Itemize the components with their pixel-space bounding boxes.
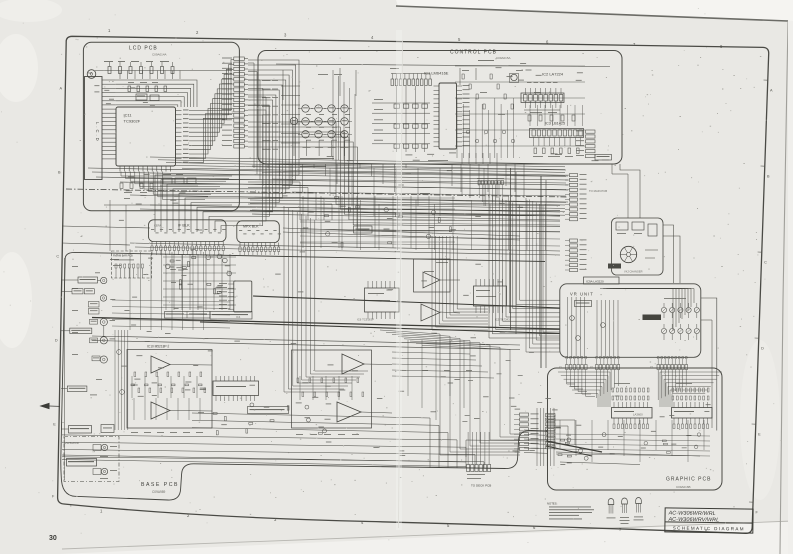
svg-text:IC10 M5218P-2: IC10 M5218P-2 xyxy=(147,345,170,349)
VR connector row J2 xyxy=(590,356,620,369)
key switch matrix wires xyxy=(372,86,430,152)
LCD display DS1 xyxy=(85,77,103,180)
left margin light patches xyxy=(0,34,38,102)
op-amp IC10 M5218P left channel xyxy=(127,345,212,429)
paper right edge xyxy=(780,21,788,554)
volume pot cluster left xyxy=(115,330,128,430)
mode switch labels xyxy=(165,312,253,320)
graphic left label column xyxy=(546,414,556,451)
VR slider group 2 xyxy=(597,300,618,357)
IC11 bottom fanout wires xyxy=(104,172,232,252)
VR connector row J1 xyxy=(559,356,587,369)
amp internal stubs left xyxy=(131,372,206,433)
wires changer to VR xyxy=(612,164,717,431)
vertical wire bundle center xyxy=(489,194,560,338)
SPEAKER terminals xyxy=(64,437,119,482)
connector CN1 LCD to base xyxy=(222,57,248,148)
svg-text:LA3600: LA3600 xyxy=(633,413,643,417)
center vertical bundle extra xyxy=(526,198,560,352)
IC4 detector xyxy=(219,281,252,319)
control top rail xyxy=(276,64,610,67)
IC11 bottom pins xyxy=(119,166,121,172)
DC OUT terminal xyxy=(61,425,114,434)
VR slider group 1 xyxy=(568,297,585,357)
left margin centering arrow xyxy=(41,403,49,408)
heavy bus wires xyxy=(92,168,560,368)
svg-text:IC1 LM6416E: IC1 LM6416E xyxy=(424,71,449,76)
BAL VOL label xyxy=(575,301,592,307)
svg-text:VXJ CHANGER: VXJ CHANGER xyxy=(624,270,643,274)
control right connector xyxy=(576,130,612,160)
IC5 TA7343P xyxy=(474,279,511,322)
graphic EQ IC LA3600 left xyxy=(612,402,653,429)
VR pot rows group 3 xyxy=(661,298,699,340)
svg-text:IF BLK: IF BLK xyxy=(178,224,190,228)
svg-text:BASE PCB: BASE PCB xyxy=(141,482,179,488)
graphic RC rows xyxy=(612,383,709,400)
resistor array control left xyxy=(391,74,431,86)
wire bundle CN1 to center right xyxy=(248,122,560,232)
control bottom drop wires xyxy=(268,164,524,198)
tuning motor block xyxy=(608,218,663,275)
svg-text:IC4: IC4 xyxy=(236,315,241,319)
legend transistor drawings xyxy=(607,498,644,524)
IC9 LA3220 label xyxy=(584,277,620,284)
VR nest wires xyxy=(600,289,694,332)
svg-text:C09A015A: C09A015A xyxy=(496,56,511,60)
amp internal stubs right xyxy=(296,378,364,435)
wire label box xyxy=(354,226,373,233)
IC12 DIP centre xyxy=(213,376,289,414)
CONTROL PCB board outline xyxy=(258,51,622,165)
scanner background top right xyxy=(396,0,793,21)
tact switch cluster xyxy=(290,105,352,159)
bus wires across sheet xyxy=(66,168,568,202)
center mesh wires xyxy=(300,196,560,250)
bus wires lower mid xyxy=(62,210,560,255)
svg-text:MPX BLK: MPX BLK xyxy=(243,225,259,229)
MPX BLK module xyxy=(237,221,281,255)
center lower wires extra xyxy=(392,340,494,420)
IC11 right pins xyxy=(176,110,182,112)
control left pin labels xyxy=(262,80,300,150)
svg-text:TC9302F: TC9302F xyxy=(124,119,141,124)
graphic interior extra wires xyxy=(556,420,710,462)
VR UNIT outline xyxy=(560,284,701,358)
GRAPHIC PCB outline xyxy=(548,368,723,490)
graphic nest wires xyxy=(558,372,722,407)
svg-text:IC9A LA3220: IC9A LA3220 xyxy=(586,280,604,284)
svg-text:NOTES:: NOTES: xyxy=(547,502,558,506)
notes text block xyxy=(547,502,594,520)
AM FM tuner component cluster xyxy=(163,254,236,310)
heavy bus second xyxy=(253,296,560,308)
connector column to main PCB lower xyxy=(565,239,587,272)
wires into graphic from left xyxy=(466,430,548,457)
vertical bundle left of centre xyxy=(284,206,368,392)
vertical bundle mid-left elbows xyxy=(432,236,488,330)
svg-text:SCHEMATIC DIAGRAM: SCHEMATIC DIAGRAM xyxy=(673,525,745,531)
wire bundle LCD upper elbows xyxy=(116,80,197,107)
svg-text:E: E xyxy=(53,423,56,427)
lower bus wires xyxy=(62,413,484,468)
IC3 LB1425 xyxy=(530,122,584,157)
LCD pin comb xyxy=(102,79,116,81)
bus wires upper mid extra xyxy=(140,157,565,216)
svg-text:CERA: CERA xyxy=(154,224,161,228)
control misc wires xyxy=(283,68,497,167)
scatter labels mid sheet xyxy=(122,251,711,465)
svg-text:IC3 LB1425: IC3 LB1425 xyxy=(545,122,565,126)
left column verticals xyxy=(65,258,79,480)
control right densify xyxy=(455,66,585,146)
IF BLK module xyxy=(149,220,227,255)
LCD controller IC11 TC9302F xyxy=(116,107,176,166)
IC11 top components R C cluster xyxy=(87,61,232,79)
antenna and input jacks column xyxy=(61,259,121,314)
connector bundle bottom right of centre xyxy=(514,408,554,466)
power amp IC13 right channel xyxy=(292,350,393,428)
LCD block extra labels xyxy=(94,85,215,204)
staircase bus to lower right xyxy=(380,330,520,455)
svg-text:CONTROL PCB: CONTROL PCB xyxy=(450,50,497,56)
BASE PCB board outline xyxy=(61,252,545,500)
svg-text:TO DECK PCB: TO DECK PCB xyxy=(471,484,491,488)
graphic lower parts xyxy=(556,433,701,465)
wire bundle IC11 to CN1 xyxy=(189,60,234,163)
photocopy smudge rows xyxy=(95,170,561,427)
TO DECK PCB connector xyxy=(467,432,492,488)
svg-text:IC2 LA7224: IC2 LA7224 xyxy=(542,72,564,77)
svg-text:D: D xyxy=(55,339,58,343)
svg-text:C09A014A: C09A014A xyxy=(152,53,167,57)
CD AUX jacks xyxy=(61,318,115,344)
paper top edge xyxy=(396,6,788,21)
svg-text:IC6 TC9163P: IC6 TC9163P xyxy=(357,318,374,322)
extra buses under control xyxy=(252,166,566,216)
IC6 TC9163 xyxy=(357,281,399,322)
LCD block mid components xyxy=(128,82,167,101)
svg-text:C09A016B: C09A016B xyxy=(676,485,691,489)
IC1 LM6416E xyxy=(424,71,470,150)
PHONO jacks xyxy=(61,356,107,395)
graphic EQ IC LA3600 right xyxy=(672,402,713,429)
svg-text:L.C.D: L.C.D xyxy=(95,122,100,143)
svg-text:C: C xyxy=(764,261,767,265)
graphic connector fanout wires xyxy=(567,370,687,401)
scanner background bottom xyxy=(60,521,793,554)
svg-text:C: C xyxy=(56,255,59,259)
op-amp IC8 block xyxy=(414,259,461,321)
svg-text:VR UNIT: VR UNIT xyxy=(570,292,594,297)
wire bundle CN1 cascade to IF MPX xyxy=(155,60,299,232)
amp section RC parts xyxy=(213,403,326,435)
connector row centre xyxy=(477,179,504,207)
svg-text:AC-W306WRV/WRL: AC-W306WRV/WRL xyxy=(667,517,719,524)
svg-text:30: 30 xyxy=(49,535,57,542)
heavy wires into graphic xyxy=(546,420,602,456)
VR connector row J3 xyxy=(650,356,688,369)
FM AM bar antenna PCB xyxy=(112,251,152,278)
svg-text:C09A989: C09A989 xyxy=(152,490,166,494)
svg-text:LCD PCB: LCD PCB xyxy=(129,46,158,52)
svg-text:D: D xyxy=(761,347,764,351)
connector column to main PCB upper xyxy=(565,174,607,221)
svg-text:GRAPHIC PCB: GRAPHIC PCB xyxy=(666,477,711,483)
IC2 LA7224 xyxy=(510,72,565,113)
cascade densify xyxy=(248,63,355,198)
MODE label dark xyxy=(643,315,662,321)
IF cascade to preamp xyxy=(112,249,230,330)
LCD PCB board outline xyxy=(83,42,239,211)
center detector cluster xyxy=(300,193,455,248)
title block xyxy=(665,508,753,533)
crystal X1 circuit xyxy=(160,174,198,186)
control extra parts xyxy=(327,63,609,161)
svg-text:2SPKR/Unit: 2SPKR/Unit xyxy=(65,441,79,445)
svg-text:TO MAIN PCB: TO MAIN PCB xyxy=(589,189,607,193)
vertical fold crease xyxy=(396,30,402,530)
svg-text:E: E xyxy=(758,433,761,437)
